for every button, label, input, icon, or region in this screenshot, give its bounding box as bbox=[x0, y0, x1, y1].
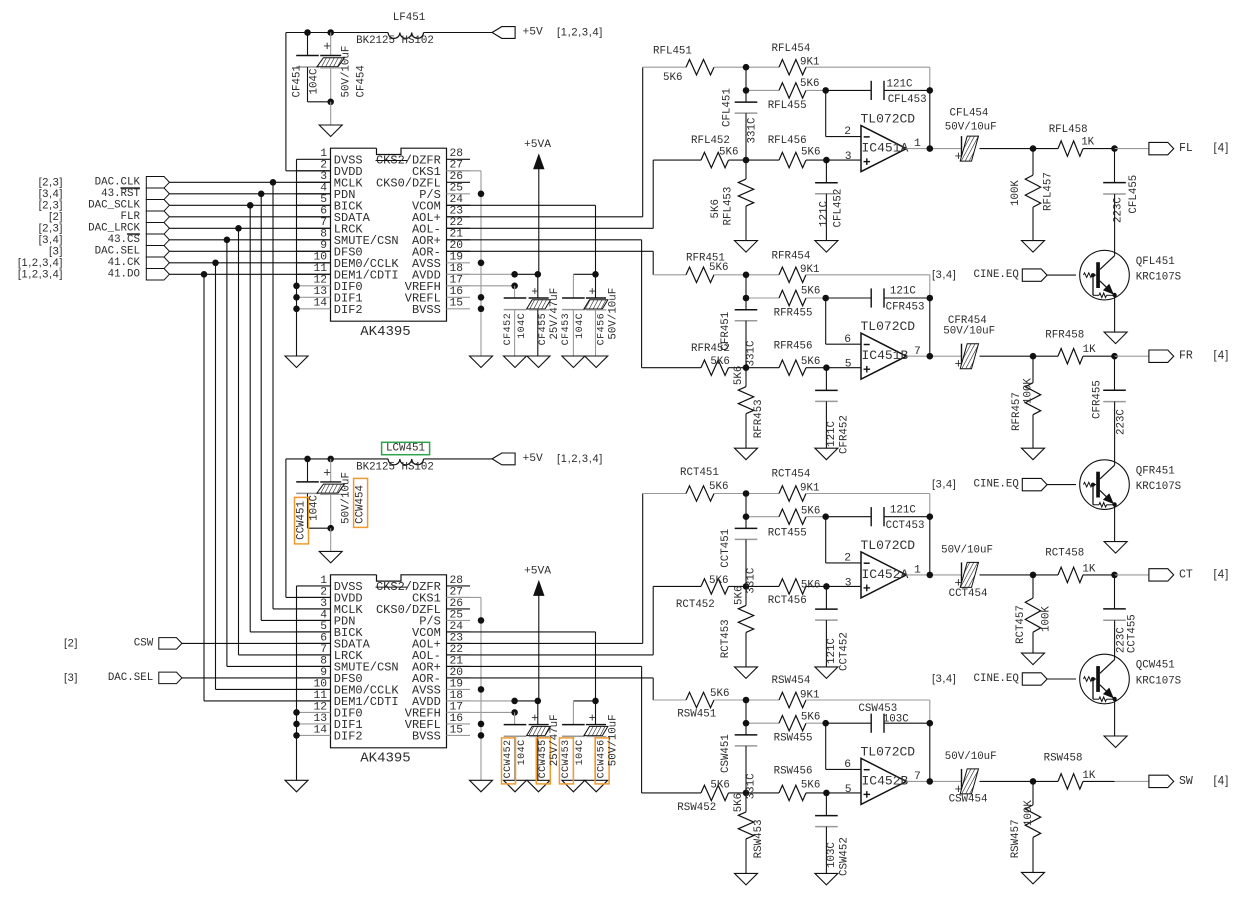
svg-text:1K: 1K bbox=[1082, 564, 1095, 576]
pin 1 DVSS bbox=[297, 158, 331, 160]
op-amp IC451A TL072CD bbox=[861, 126, 906, 172]
svg-text:15: 15 bbox=[450, 298, 464, 310]
wire DVSS rail bbox=[296, 159, 298, 356]
wire +5V rail CF bbox=[286, 32, 388, 34]
capacitor CCW453 104C bbox=[572, 701, 574, 725]
svg-text:5: 5 bbox=[320, 194, 327, 206]
svg-text:CSW454: CSW454 bbox=[949, 793, 988, 805]
capacitor CCT453 121C bbox=[826, 516, 872, 518]
svg-text:27: 27 bbox=[450, 586, 464, 598]
svg-text:331C: 331C bbox=[747, 117, 759, 143]
wire CINE.EQ to base bbox=[1047, 274, 1076, 276]
resistor RCT456 5K6 bbox=[746, 585, 779, 587]
svg-text:[4]: [4] bbox=[1214, 350, 1230, 362]
pin 11 DEM1/CDTI bbox=[297, 273, 331, 275]
junction node A bbox=[743, 64, 750, 71]
junction bbox=[743, 790, 750, 797]
svg-text:23: 23 bbox=[450, 632, 464, 644]
svg-text:23: 23 bbox=[450, 206, 464, 218]
wire DAC_SCLK to DAC1 bbox=[169, 204, 330, 206]
pin 14 DIF2 bbox=[297, 308, 331, 310]
ground DVSS bbox=[285, 356, 308, 368]
junction P/S bbox=[478, 617, 485, 624]
resistor RFR454 9K1 bbox=[746, 274, 779, 276]
svg-text:6: 6 bbox=[844, 334, 851, 346]
connector 43.CS bbox=[146, 234, 169, 246]
svg-text:9K1: 9K1 bbox=[800, 483, 819, 495]
svg-text:CCW455: CCW455 bbox=[538, 739, 549, 778]
wire 41.DO to DAC1 bbox=[169, 273, 330, 275]
svg-text:2: 2 bbox=[320, 586, 327, 598]
junction AVDD +5VA bbox=[535, 271, 542, 278]
svg-text:5K6: 5K6 bbox=[709, 262, 728, 274]
connector output CT bbox=[1149, 569, 1174, 581]
svg-text:RSW456: RSW456 bbox=[774, 766, 813, 778]
transistor QFL451 KRC107S bbox=[1080, 250, 1130, 300]
svg-text:15: 15 bbox=[450, 724, 464, 736]
svg-text:[4]: [4] bbox=[1214, 569, 1230, 581]
connector 41.CK bbox=[146, 257, 169, 269]
capacitor CFR453 121C bbox=[826, 297, 872, 299]
junction node A bbox=[743, 697, 750, 704]
svg-text:5K6: 5K6 bbox=[710, 780, 729, 792]
svg-text:+5VA: +5VA bbox=[524, 565, 551, 577]
svg-text:25: 25 bbox=[450, 183, 464, 195]
svg-text:19: 19 bbox=[450, 678, 464, 690]
pin 26 CKS0/DZFL bbox=[447, 608, 471, 610]
capacitor CFR454 50V/10uF electrolytic bbox=[961, 344, 963, 369]
svg-text:16: 16 bbox=[450, 286, 464, 298]
svg-text:FLR: FLR bbox=[121, 211, 141, 223]
resistor RSW452 5K6 bbox=[642, 792, 701, 794]
wire AVDD bbox=[447, 700, 515, 702]
svg-text:TL072CD: TL072CD bbox=[861, 538, 916, 553]
svg-text:CCW454: CCW454 bbox=[355, 485, 367, 524]
svg-text:5K6: 5K6 bbox=[800, 78, 819, 90]
svg-text:3: 3 bbox=[845, 151, 852, 163]
svg-text:+: + bbox=[955, 149, 963, 164]
pin 20 AOR- bbox=[447, 250, 471, 252]
svg-text:18: 18 bbox=[450, 690, 464, 702]
svg-text:[1,2,3,4]: [1,2,3,4] bbox=[18, 257, 63, 269]
svg-text:IC452A: IC452A bbox=[862, 567, 909, 582]
ground RFR457 bbox=[1022, 448, 1045, 460]
svg-text:25: 25 bbox=[450, 609, 464, 621]
wire bus to DAC2 pin bbox=[261, 619, 330, 621]
ground CCT452 bbox=[815, 667, 838, 679]
svg-text:[3]: [3] bbox=[64, 672, 78, 684]
svg-text:121C: 121C bbox=[890, 505, 916, 517]
svg-text:+: + bbox=[323, 39, 331, 54]
connector DAC.SEL lower bbox=[159, 672, 182, 684]
svg-text:DIF2: DIF2 bbox=[334, 303, 363, 317]
svg-text:14: 14 bbox=[313, 724, 327, 736]
capacitor CFL453 121C bbox=[826, 89, 872, 91]
svg-text:+5V: +5V bbox=[523, 27, 544, 39]
resistor RSW458 1K bbox=[1033, 780, 1058, 782]
junction output bbox=[1111, 572, 1118, 579]
svg-text:21: 21 bbox=[450, 229, 464, 241]
pin 16 VREFL bbox=[447, 296, 471, 298]
bus junction bbox=[212, 260, 219, 267]
svg-text:6: 6 bbox=[320, 632, 327, 644]
svg-text:6: 6 bbox=[320, 206, 327, 218]
svg-text:8: 8 bbox=[320, 229, 327, 241]
capacitor CSW454 50V/10uF electrolytic bbox=[961, 769, 963, 794]
ground CF456 bbox=[585, 780, 608, 792]
svg-text:9K1: 9K1 bbox=[800, 689, 819, 701]
svg-text:CFR455: CFR455 bbox=[1092, 380, 1104, 419]
svg-text:CINE.EQ: CINE.EQ bbox=[974, 479, 1019, 491]
pin 10 DEM0/CCLK bbox=[297, 262, 331, 264]
svg-text:50V/10uF: 50V/10uF bbox=[943, 326, 995, 338]
junction bbox=[1030, 778, 1037, 785]
ground CFR452 bbox=[815, 448, 838, 460]
bus junction bbox=[247, 202, 254, 209]
junction DIF1 bbox=[293, 721, 300, 728]
pin 13 DIF1 bbox=[297, 296, 331, 298]
svg-text:5K6: 5K6 bbox=[663, 72, 682, 84]
resistor RCT451 5K6 bbox=[643, 493, 686, 495]
pin 5 BICK bbox=[297, 631, 331, 633]
pin 28 CKS2/DZFR bbox=[447, 158, 471, 160]
svg-text:+5VA: +5VA bbox=[524, 139, 551, 151]
pin 11 DEM1/CDTI bbox=[297, 700, 331, 702]
svg-text:RCT451: RCT451 bbox=[680, 467, 719, 479]
wire to output connector bbox=[1115, 148, 1149, 150]
ground P/S rail bbox=[470, 356, 493, 368]
svg-text:1K: 1K bbox=[1083, 344, 1096, 356]
resistor RFL453 5K6 to ground bbox=[745, 160, 747, 179]
svg-text:12: 12 bbox=[313, 701, 327, 713]
svg-text:TL072CD: TL072CD bbox=[861, 744, 916, 759]
wire CKS1 to rail bbox=[447, 596, 482, 598]
wire feedback vertical bbox=[929, 67, 931, 90]
svg-text:50V/10uF: 50V/10uF bbox=[341, 46, 353, 98]
svg-text:41.CK: 41.CK bbox=[108, 257, 141, 269]
svg-text:19: 19 bbox=[450, 252, 464, 264]
svg-text:28: 28 bbox=[450, 148, 464, 160]
connector 41.DO bbox=[146, 269, 169, 281]
connector DAC_SCLK bbox=[146, 200, 169, 212]
svg-text:4: 4 bbox=[320, 609, 327, 621]
svg-text:104C: 104C bbox=[575, 313, 586, 339]
junction BVSS bbox=[478, 732, 485, 739]
ground CF455 bbox=[527, 356, 550, 368]
junction bbox=[822, 720, 829, 727]
svg-text:CF452: CF452 bbox=[503, 313, 514, 346]
pin 28 CKS2/DZFR bbox=[447, 585, 471, 587]
junction feedback bbox=[927, 720, 934, 727]
svg-text:+: + bbox=[323, 465, 331, 480]
pin 25 P/S bbox=[447, 619, 471, 621]
resistor RFL455 5K6 bbox=[746, 89, 779, 91]
svg-text:6: 6 bbox=[844, 759, 851, 771]
junction bbox=[327, 29, 334, 36]
junction feedback bbox=[927, 87, 934, 94]
svg-text:100K: 100K bbox=[1010, 180, 1022, 206]
svg-text:50V/10uF: 50V/10uF bbox=[607, 288, 619, 340]
pin 24 VCOM bbox=[447, 631, 471, 633]
wire to output connector bbox=[1115, 355, 1149, 357]
wire P/S ground rail bbox=[480, 597, 482, 780]
resistor RSW451 5K6 bbox=[653, 699, 686, 701]
svg-text:RFL455: RFL455 bbox=[768, 100, 807, 112]
junction AVDD/cap bbox=[511, 271, 518, 278]
wire DAC.SEL to DAC1 bbox=[169, 250, 330, 252]
svg-text:104C: 104C bbox=[517, 739, 528, 765]
junction bbox=[822, 513, 829, 520]
svg-text:RFR453: RFR453 bbox=[753, 399, 765, 438]
junction node A bbox=[743, 490, 750, 497]
svg-text:CF453: CF453 bbox=[561, 313, 572, 346]
wire AOL- bbox=[447, 227, 654, 229]
wire AOR+ bbox=[447, 665, 642, 667]
svg-text:RFR454: RFR454 bbox=[772, 250, 811, 262]
svg-text:43.CS: 43.CS bbox=[108, 234, 140, 246]
junction bbox=[1030, 353, 1037, 360]
svg-text:121C: 121C bbox=[887, 78, 913, 90]
ground RFL453 bbox=[735, 241, 758, 253]
pin 8 SMUTE/CSN bbox=[297, 239, 331, 241]
wire FLR to DAC1 bbox=[169, 216, 330, 218]
svg-text:3: 3 bbox=[320, 598, 327, 610]
capacitor CCW455 electrolytic bbox=[537, 701, 539, 725]
junction node A bbox=[743, 272, 750, 279]
svg-text:+: + bbox=[531, 285, 538, 299]
svg-text:FR: FR bbox=[1179, 350, 1193, 363]
capacitor CFL455 223C bbox=[1114, 149, 1116, 183]
svg-text:[4]: [4] bbox=[1214, 143, 1230, 155]
wire emitter to ground bbox=[1114, 699, 1116, 736]
resistor RFL456 5K6 bbox=[746, 159, 779, 161]
svg-text:+5V: +5V bbox=[523, 453, 544, 465]
svg-text:5K6: 5K6 bbox=[801, 780, 820, 792]
svg-text:13: 13 bbox=[313, 286, 327, 298]
svg-text:9K1: 9K1 bbox=[800, 264, 819, 276]
wire 43.RST to DAC1 bbox=[169, 193, 330, 195]
capacitor CF452 104C bbox=[514, 286, 516, 298]
wire VREFH bbox=[447, 285, 515, 287]
pin 27 CKS1 bbox=[447, 170, 471, 172]
svg-text:TL072CD: TL072CD bbox=[861, 112, 916, 127]
wire DVDD to +5V bbox=[286, 170, 331, 172]
svg-text:CCT455: CCT455 bbox=[1127, 614, 1139, 653]
wire VCOM bbox=[447, 631, 596, 633]
svg-text:RSW453: RSW453 bbox=[753, 819, 765, 858]
svg-text:50V/10uF: 50V/10uF bbox=[945, 122, 997, 134]
resistor RCT455 5K6 bbox=[746, 516, 779, 518]
svg-text:CFL454: CFL454 bbox=[950, 108, 989, 120]
svg-text:[2,3]: [2,3] bbox=[39, 222, 63, 234]
+5V power connector bbox=[492, 453, 515, 465]
wire 43.CS to DAC1 bbox=[169, 239, 330, 241]
svg-text:RFL457: RFL457 bbox=[1043, 172, 1055, 211]
wire VREFH bbox=[447, 711, 515, 713]
wire to inverting input bbox=[745, 700, 747, 723]
op-amp IC452A TL072CD bbox=[861, 552, 906, 598]
svg-text:RFL451: RFL451 bbox=[653, 46, 692, 58]
svg-text:FL: FL bbox=[1179, 142, 1193, 155]
svg-text:3: 3 bbox=[845, 577, 852, 589]
pin 6 SDATA bbox=[297, 642, 331, 644]
pin 9 DFS0 bbox=[297, 250, 331, 252]
pin 2 DVDD bbox=[297, 170, 331, 172]
resistor RFR451 5K6 bbox=[653, 274, 686, 276]
resistor RFL451 5K6 bbox=[643, 66, 686, 68]
svg-text:CFL451: CFL451 bbox=[722, 88, 734, 127]
svg-text:121C: 121C bbox=[826, 420, 838, 446]
svg-text:24: 24 bbox=[450, 194, 464, 206]
pin 27 CKS1 bbox=[447, 596, 471, 598]
junction bbox=[822, 87, 829, 94]
svg-text:100K: 100K bbox=[1023, 800, 1035, 826]
svg-text:50V/10uF: 50V/10uF bbox=[941, 545, 993, 557]
svg-text:CF454: CF454 bbox=[356, 65, 368, 97]
svg-text:100K: 100K bbox=[1022, 378, 1034, 404]
svg-text:RFR456: RFR456 bbox=[774, 340, 813, 352]
junction feedback bbox=[927, 295, 934, 302]
resistor RFR458 1K bbox=[1033, 355, 1058, 357]
wire DAC.CLK to DAC1 bbox=[169, 181, 330, 183]
capacitor CCW451 bbox=[307, 459, 309, 482]
resistor RFR456 5K6 bbox=[746, 367, 779, 369]
svg-text:CFR451: CFR451 bbox=[720, 312, 732, 351]
junction bbox=[327, 99, 334, 106]
svg-text:+: + bbox=[589, 285, 596, 299]
junction VREFL bbox=[478, 294, 485, 301]
svg-text:CFR452: CFR452 bbox=[839, 415, 851, 454]
svg-text:5: 5 bbox=[845, 784, 852, 796]
svg-text:21: 21 bbox=[450, 655, 464, 667]
svg-text:26: 26 bbox=[450, 171, 464, 183]
ground CF453 bbox=[562, 780, 585, 792]
ground CF452 bbox=[504, 780, 527, 792]
svg-text:BVSS: BVSS bbox=[412, 303, 441, 317]
junction VCOM caps bbox=[592, 271, 599, 278]
svg-text:[1,2,3,4]: [1,2,3,4] bbox=[557, 453, 603, 465]
pin 3 MCLK bbox=[297, 608, 331, 610]
transistor QFR451 KRC107S bbox=[1080, 460, 1130, 510]
ground CSW452 bbox=[815, 873, 838, 885]
svg-text:100K: 100K bbox=[1040, 606, 1052, 632]
ground CF456 bbox=[585, 356, 608, 368]
op-amp IC452B TL072CD bbox=[861, 758, 906, 804]
pin 18 AVDD bbox=[447, 700, 471, 702]
svg-text:50V/10uF: 50V/10uF bbox=[607, 714, 619, 766]
junction DIF0 bbox=[293, 709, 300, 716]
ground QFR451 emitter bbox=[1104, 542, 1127, 554]
svg-text:IC451A: IC451A bbox=[862, 141, 909, 156]
svg-text:CCT452: CCT452 bbox=[839, 632, 851, 671]
svg-text:8: 8 bbox=[320, 655, 327, 667]
svg-text:RCT457: RCT457 bbox=[1015, 605, 1027, 644]
junction bbox=[743, 87, 750, 94]
svg-text:43.RST: 43.RST bbox=[101, 188, 140, 200]
junction AVDD +5VA bbox=[535, 698, 542, 705]
junction feedback bbox=[927, 513, 934, 520]
pin 20 AOR- bbox=[447, 677, 471, 679]
svg-text:CCT453: CCT453 bbox=[886, 520, 925, 532]
wire feedback vertical bbox=[929, 494, 931, 517]
svg-text:223C: 223C bbox=[1116, 409, 1128, 435]
svg-text:5K6: 5K6 bbox=[710, 356, 729, 368]
wire emitter to ground bbox=[1114, 505, 1116, 542]
wire bus vertical bbox=[226, 240, 228, 667]
pin 22 AOL- bbox=[447, 227, 471, 229]
svg-text:IC451B: IC451B bbox=[862, 348, 909, 363]
svg-text:KRC107S: KRC107S bbox=[1136, 272, 1181, 284]
capacitor CCT452 121C bbox=[825, 586, 827, 609]
wire to output connector bbox=[1115, 574, 1149, 576]
capacitor CCT455 223C bbox=[1114, 575, 1116, 609]
svg-text:121C: 121C bbox=[826, 638, 838, 664]
connector output FL bbox=[1149, 142, 1174, 154]
svg-text:RSW457: RSW457 bbox=[1010, 819, 1022, 858]
svg-text:103C: 103C bbox=[883, 714, 909, 726]
capacitor CCW456 electrolytic bbox=[595, 701, 597, 725]
svg-text:CSW452: CSW452 bbox=[839, 837, 851, 876]
wire bus vertical bbox=[215, 263, 217, 690]
svg-text:QCW451: QCW451 bbox=[1136, 660, 1175, 672]
junction output bbox=[1111, 145, 1118, 152]
svg-text:RFR458: RFR458 bbox=[1045, 330, 1084, 342]
svg-text:RCT453: RCT453 bbox=[720, 619, 732, 658]
svg-text:17: 17 bbox=[450, 275, 464, 287]
wire op-amp output bbox=[906, 780, 929, 782]
svg-text:27: 27 bbox=[450, 160, 464, 172]
capacitor CFL452 121C bbox=[825, 160, 827, 183]
junction bbox=[327, 525, 334, 532]
wire bus to DAC2 pin bbox=[227, 665, 331, 667]
wire AVDD bbox=[447, 273, 515, 275]
capacitor CSW451 331C bbox=[745, 723, 747, 735]
svg-text:5K6: 5K6 bbox=[710, 199, 722, 218]
svg-text:11: 11 bbox=[313, 690, 327, 702]
svg-text:CCW456: CCW456 bbox=[597, 739, 608, 778]
svg-text:2: 2 bbox=[320, 160, 327, 172]
pin 18 AVDD bbox=[447, 273, 471, 275]
svg-text:1K: 1K bbox=[1081, 136, 1094, 148]
svg-text:5K6: 5K6 bbox=[801, 712, 820, 724]
svg-text:LF451: LF451 bbox=[393, 12, 425, 24]
wire op-amp output bbox=[906, 574, 929, 576]
junction bbox=[743, 720, 750, 727]
capacitor CF451 bbox=[307, 33, 309, 56]
junction feedback/output bbox=[927, 778, 934, 785]
svg-text:IC452B: IC452B bbox=[862, 773, 909, 788]
svg-text:5K6: 5K6 bbox=[801, 506, 820, 518]
svg-text:CINE.EQ: CINE.EQ bbox=[974, 269, 1019, 281]
resistor RSW456 5K6 bbox=[746, 792, 779, 794]
svg-text:5: 5 bbox=[845, 359, 852, 371]
pin 6 SDATA bbox=[297, 216, 331, 218]
svg-text:[3,4]: [3,4] bbox=[39, 188, 63, 200]
capacitor CF456 electrolytic bbox=[595, 274, 597, 298]
svg-text:+: + bbox=[531, 712, 538, 726]
resistor RCT457 100K bbox=[1032, 575, 1034, 598]
overstrike on CKS2 bbox=[376, 160, 408, 162]
svg-text:RSW451: RSW451 bbox=[677, 709, 716, 721]
resistor RFR457 100K bbox=[1032, 356, 1034, 383]
wire CINE.EQ to base bbox=[1047, 678, 1076, 680]
pin 14 DIF2 bbox=[297, 734, 331, 736]
svg-text:BK2125 HS102: BK2125 HS102 bbox=[356, 35, 434, 47]
junction bbox=[304, 29, 311, 36]
junction bbox=[743, 583, 750, 590]
junction feedback/output bbox=[927, 572, 934, 579]
pin 22 AOL- bbox=[447, 654, 471, 656]
